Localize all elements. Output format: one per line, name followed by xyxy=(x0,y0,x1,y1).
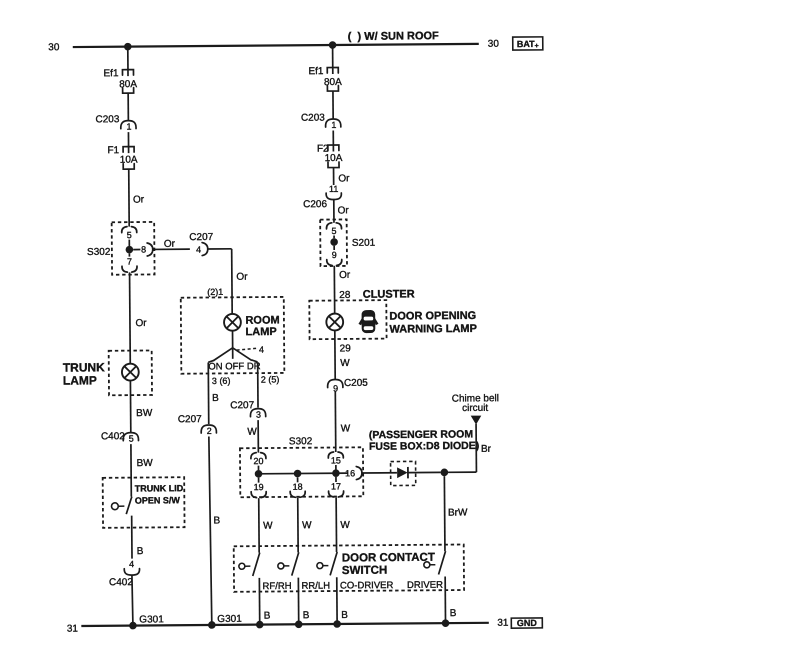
lamp door opening warning xyxy=(326,314,343,331)
svg-text:31: 31 xyxy=(67,624,79,635)
room lamp 3-position switch xyxy=(213,348,233,361)
wire DRIVER switch to ground bus, colour B xyxy=(444,576,446,623)
svg-text:G301: G301 xyxy=(139,614,164,625)
wire C203 to fuse F2 xyxy=(332,131,334,145)
connector C205 pin 9 xyxy=(328,379,343,387)
DOOR CONTACT SWITCH box xyxy=(234,545,464,592)
svg-text:C207: C207 xyxy=(178,414,202,425)
svg-text:C205: C205 xyxy=(344,378,368,389)
S201 pin 5 xyxy=(326,223,331,229)
icon car with open doors xyxy=(358,310,378,333)
svg-text:DRIVER: DRIVER xyxy=(407,580,443,591)
svg-text:10A: 10A xyxy=(325,153,343,164)
wire switch DR contact down xyxy=(257,362,259,407)
svg-text:Ef1: Ef1 xyxy=(103,68,119,79)
svg-text:C206: C206 xyxy=(303,199,327,210)
junction ground/CO-DRIVER xyxy=(333,620,341,628)
svg-text:3 (6): 3 (6) xyxy=(212,376,231,386)
svg-text:OPEN S/W: OPEN S/W xyxy=(135,495,181,505)
svg-text:B: B xyxy=(341,610,348,621)
svg-text:Or: Or xyxy=(339,270,351,281)
svg-text:BW: BW xyxy=(137,458,154,469)
svg-text:circuit: circuit xyxy=(462,403,488,414)
svg-text:C207: C207 xyxy=(230,400,254,411)
svg-text:80A: 80A xyxy=(119,79,137,90)
svg-text:29: 29 xyxy=(340,343,352,354)
wire RF/RH switch to ground bus, colour B xyxy=(258,578,260,625)
junction inside S302 xyxy=(126,246,134,254)
wire pin16 to diode xyxy=(362,472,397,474)
S302 pin 8 xyxy=(133,249,140,251)
svg-text:RR/LH: RR/LH xyxy=(301,581,330,592)
svg-text:GND: GND xyxy=(517,618,538,628)
junction ground/room lamp B wire xyxy=(208,621,216,629)
svg-text:W: W xyxy=(340,358,350,369)
wire junction to chime riser xyxy=(448,471,476,473)
TRUNK LAMP box xyxy=(109,350,152,395)
wire S201 pin9 to cluster lamp, colour Or xyxy=(333,266,335,313)
svg-text:B: B xyxy=(264,611,271,622)
svg-text:5: 5 xyxy=(127,230,132,240)
svg-text:LAMP: LAMP xyxy=(245,326,276,338)
switch door contact CO-DRIVER xyxy=(317,563,323,569)
svg-text:1: 1 xyxy=(126,122,131,132)
S302 pin 20 xyxy=(251,453,256,459)
svg-text:Or: Or xyxy=(338,173,350,184)
wire C205 to S302 pin 15, colour W xyxy=(334,391,336,452)
junction S302 pin20 xyxy=(255,470,263,478)
wire S302 pin8 to C207 pin4, colour Or xyxy=(153,248,190,250)
svg-text:30: 30 xyxy=(488,39,500,50)
wire C206 to S201, colour Or xyxy=(333,200,335,223)
svg-text:4: 4 xyxy=(129,559,134,569)
svg-text:8: 8 xyxy=(141,244,146,254)
svg-text:1: 1 xyxy=(331,120,336,130)
junction S302 pin18 xyxy=(294,470,302,478)
ROOM LAMP assembly box xyxy=(181,297,285,374)
svg-text:30: 30 xyxy=(48,42,60,53)
svg-text:C402: C402 xyxy=(109,577,133,588)
wire C402 to trunk lid switch, colour BW xyxy=(130,444,132,496)
svg-text:G301: G301 xyxy=(217,614,242,625)
wire Ef1 to C203 (right) xyxy=(332,91,334,119)
svg-text:( ) W/ SUN ROOF: ( ) W/ SUN ROOF xyxy=(348,30,439,43)
svg-text:Or: Or xyxy=(338,205,350,216)
S201 pin 9 xyxy=(333,246,335,250)
wire lamp to switch pivot xyxy=(232,331,234,348)
S302 pin 7 xyxy=(128,253,130,256)
svg-text:80A: 80A xyxy=(324,77,342,88)
svg-text:7: 7 xyxy=(127,257,132,267)
wire F1 to S302 pin 5, colour Or xyxy=(128,169,130,226)
svg-text:SWITCH: SWITCH xyxy=(342,565,387,577)
svg-text:WARNING LAMP: WARNING LAMP xyxy=(389,323,476,336)
svg-text:3: 3 xyxy=(256,410,261,420)
junction bus30 / right branch xyxy=(329,41,337,49)
wire C203 to fuse F1 xyxy=(127,132,129,146)
junction bus30 / left branch xyxy=(124,43,132,51)
svg-text:C207: C207 xyxy=(189,232,213,243)
svg-text:TRUNK LID: TRUNK LID xyxy=(135,483,184,493)
bus inside S302 xyxy=(259,472,348,475)
svg-text:B: B xyxy=(303,610,310,621)
wire C207 pin4 to room lamp (corner) xyxy=(208,248,232,250)
svg-text:CLUSTER: CLUSTER xyxy=(363,288,415,300)
wire bus30 to fuse Ef1 (left) xyxy=(127,47,129,70)
svg-text:C203: C203 xyxy=(95,114,119,125)
S302 pin 15 xyxy=(328,452,333,458)
svg-text:DOOR OPENING: DOOR OPENING xyxy=(389,310,476,323)
wire pin5 to junction (S201) xyxy=(333,236,335,239)
svg-text:2: 2 xyxy=(207,426,212,436)
svg-text:RF/RH: RF/RH xyxy=(262,581,291,592)
svg-text:F1: F1 xyxy=(107,145,119,156)
lamp TRUNK LAMP xyxy=(122,364,139,381)
svg-text:5: 5 xyxy=(331,226,336,236)
junction ground/RF-RH xyxy=(256,621,264,629)
wire pin17 to door switch CO-DRIVER, colour W xyxy=(335,498,337,552)
fuse F1 10A xyxy=(123,147,134,153)
wire bus 30 (battery feed) xyxy=(73,44,479,47)
GND terminal box xyxy=(511,618,542,628)
svg-text:28: 28 xyxy=(339,290,351,301)
S302 pin 18 xyxy=(297,477,299,482)
svg-text:ON OFF DR: ON OFF DR xyxy=(208,361,260,372)
wire C207 pin3 to S302 pin 20, colour W xyxy=(257,420,259,452)
svg-text:B: B xyxy=(137,546,144,557)
svg-text:ROOM: ROOM xyxy=(245,314,279,326)
wire CO-DRIVER switch to ground bus, colour B xyxy=(336,577,338,624)
splice box S302 (upper) xyxy=(112,222,155,275)
S302 pin 17 xyxy=(335,477,337,482)
svg-text:Or: Or xyxy=(164,239,176,250)
svg-text:5: 5 xyxy=(129,434,134,444)
svg-text:20: 20 xyxy=(253,456,263,466)
svg-text:4: 4 xyxy=(259,345,264,355)
svg-text:Or: Or xyxy=(133,195,145,206)
wire riser to chime bell circuit, colour Br xyxy=(475,424,477,472)
svg-text:Or: Or xyxy=(236,272,248,283)
svg-text:18: 18 xyxy=(293,482,303,492)
node 29 label / wire cluster to C205, colour W xyxy=(334,331,336,380)
svg-text:17: 17 xyxy=(331,481,341,491)
junction diode/driver/chime xyxy=(441,469,449,477)
arrow to chime bell circuit xyxy=(471,416,482,425)
switch door contact RF/RH xyxy=(239,563,245,569)
svg-text:B: B xyxy=(450,608,457,619)
switch trunk lid open xyxy=(111,503,118,510)
svg-text:C402: C402 xyxy=(101,431,125,442)
svg-text:11: 11 xyxy=(329,184,338,194)
svg-text:15: 15 xyxy=(331,455,341,465)
junction ground/trunk branch xyxy=(129,622,137,630)
wire C402 pin4 to ground bus xyxy=(131,576,134,626)
svg-text:B: B xyxy=(213,515,220,526)
S302 pin 19 xyxy=(258,478,260,483)
svg-text:W: W xyxy=(247,427,257,438)
wire pin18 to door switch RR/LH, colour W xyxy=(297,498,299,552)
S302 pin 5 xyxy=(122,227,127,233)
wire bus30 to fuse Ef1 (right) xyxy=(332,45,334,67)
svg-text:2 (5): 2 (5) xyxy=(261,374,280,384)
fuse Ef1 80A (right) xyxy=(327,67,338,73)
junction inside S201 xyxy=(330,238,338,246)
svg-text:FUSE BOX:D8 DIODE): FUSE BOX:D8 DIODE) xyxy=(369,440,479,453)
wire switch ON contact down xyxy=(207,363,209,424)
junction ground/RR-LH xyxy=(295,620,303,628)
svg-text:Ef1: Ef1 xyxy=(308,66,324,77)
svg-text:Br: Br xyxy=(481,444,492,455)
wire pin19 to door switch RF/RH, colour W xyxy=(258,498,260,552)
svg-text:Or: Or xyxy=(135,318,147,329)
svg-text:W: W xyxy=(340,520,350,531)
svg-text:16: 16 xyxy=(345,468,355,478)
wire bus 31 (ground) xyxy=(81,623,488,626)
svg-text:19: 19 xyxy=(254,482,264,492)
svg-text:9: 9 xyxy=(332,250,337,260)
svg-text:S302: S302 xyxy=(289,436,313,447)
wire trunk switch to C402 pin4, colour B xyxy=(131,516,133,559)
wire trunk lamp to C402 pin5, colour BW xyxy=(129,381,131,433)
svg-text:S302: S302 xyxy=(87,247,111,258)
wire pin5 to junction xyxy=(128,240,130,246)
fuse F2 10A xyxy=(328,145,339,151)
junction ground/DRIVER xyxy=(442,619,450,627)
svg-text:B: B xyxy=(212,393,219,404)
svg-text:W: W xyxy=(263,521,273,532)
lamp ROOM LAMP xyxy=(224,314,241,331)
BAT+ terminal box xyxy=(513,37,543,50)
wire Ef1 to C203 xyxy=(127,93,129,120)
diode D8 box xyxy=(391,461,416,485)
fuse Ef1 80A (left) xyxy=(122,70,133,76)
svg-text:4: 4 xyxy=(196,245,201,255)
svg-text:W: W xyxy=(302,520,312,531)
wire junction to door switch DRIVER, colour BrW xyxy=(443,476,446,551)
svg-text:BrW: BrW xyxy=(448,507,468,518)
svg-text:(2)1: (2)1 xyxy=(207,287,223,297)
svg-text:31: 31 xyxy=(497,618,509,629)
svg-text:BW: BW xyxy=(136,408,153,419)
svg-text:10A: 10A xyxy=(120,155,138,166)
wire diode to junction xyxy=(408,471,440,473)
wire C207 pin2 to ground bus, colour B xyxy=(209,436,212,625)
wire F2 to C206 pin 11, colour Or xyxy=(333,168,335,185)
switch door contact RR/LH xyxy=(278,563,284,569)
CLUSTER box xyxy=(309,300,386,339)
svg-text:C203: C203 xyxy=(301,113,325,124)
splice box S201 xyxy=(320,219,347,266)
TRUNK LID OPEN S/W box xyxy=(103,477,185,528)
svg-text:S201: S201 xyxy=(352,238,376,249)
svg-text:W: W xyxy=(341,423,351,434)
switch door contact DRIVER xyxy=(424,562,430,568)
diode D8 xyxy=(397,467,408,478)
svg-text:CO-DRIVER: CO-DRIVER xyxy=(340,580,394,591)
svg-text:DOOR CONTACT: DOOR CONTACT xyxy=(342,552,435,565)
svg-text:LAMP: LAMP xyxy=(63,373,97,387)
junction S302 pin15/17 xyxy=(332,469,340,477)
wire S302 pin7 to trunk lamp, colour Or xyxy=(129,272,132,363)
wire RR/LH switch to ground bus, colour B xyxy=(297,578,299,625)
